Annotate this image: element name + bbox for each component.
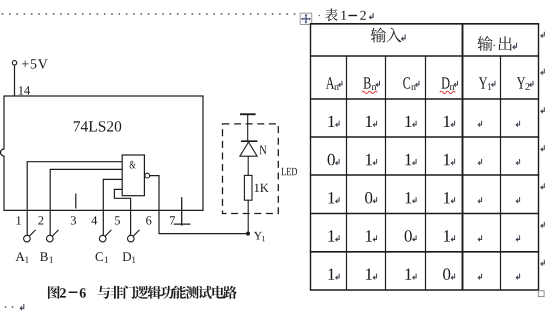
LED block label xyxy=(281,168,297,175)
gate & symbol xyxy=(130,161,136,169)
end-of-row marks xyxy=(541,32,544,266)
table move handle xyxy=(300,13,312,24)
column headers An Bn Cn Dn Y1 Y2 xyxy=(326,77,533,90)
resistor 1K xyxy=(244,175,252,200)
spellcheck squiggles under Bn and Dn xyxy=(362,91,456,93)
LED branch +5V power bar xyxy=(240,113,256,115)
wire power bar to LED xyxy=(247,115,249,141)
+5V supply terminal xyxy=(12,59,47,68)
truth table data xyxy=(328,116,520,280)
wire +5V to pin 14 xyxy=(14,65,16,96)
pin number labels 1-7 xyxy=(17,216,176,224)
LED diode N xyxy=(240,141,258,156)
pin 3 stub (unused) xyxy=(75,194,77,209)
dashed enclosure (LED indicator block) xyxy=(223,124,279,214)
caption 图2-6 与非门逻辑功能测试电路 xyxy=(48,286,237,299)
diode label N xyxy=(260,146,267,155)
stray formatting marks bottom-left xyxy=(5,306,14,308)
wire pin4 C1 to gate input 3 xyxy=(103,179,122,235)
pin 14 label xyxy=(19,86,30,94)
header 输 出 xyxy=(478,36,517,51)
table grid xyxy=(310,24,539,290)
wire pin5 D1 to gate input 4 xyxy=(114,189,130,235)
header 输入 xyxy=(371,28,405,43)
NAND gate U1A xyxy=(122,155,150,196)
input terminal D1 xyxy=(123,230,140,263)
IC U1 74LS20 body xyxy=(1,96,204,210)
wire resistor to node Y1 xyxy=(247,200,249,232)
text boundary dotted line xyxy=(2,13,296,15)
resistor label 1K xyxy=(255,184,269,192)
ground (pin 7) xyxy=(174,197,191,226)
wire LED to resistor xyxy=(247,156,249,175)
wire pin2 B1 to gate input 2 xyxy=(50,169,122,235)
IC label 74LS20 xyxy=(74,121,121,132)
input terminal B1 xyxy=(40,230,58,263)
table title 表1-2 xyxy=(319,8,374,21)
wire pin1 A1 to gate input 1 xyxy=(27,162,122,236)
node Y1 xyxy=(246,232,265,242)
wire pin6 output to node Y1 xyxy=(150,176,248,234)
table resize handle xyxy=(538,291,544,297)
input terminal C1 xyxy=(96,230,112,263)
input terminal A1 xyxy=(16,230,36,263)
